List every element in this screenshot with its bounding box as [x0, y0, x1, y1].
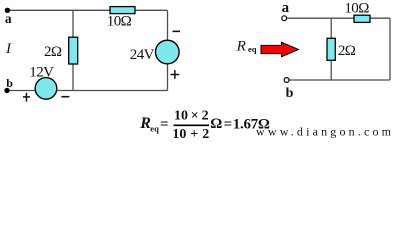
node a (right circuit open terminal)	[282, 16, 287, 21]
svg-text:12V: 12V	[29, 65, 54, 81]
arrow (red block arrow)	[261, 42, 299, 57]
wire: left circuit right branch	[167, 10, 169, 90]
wire: right circuit right side	[389, 18, 391, 80]
svg-text:2Ω: 2Ω	[338, 43, 356, 59]
svg-text:I: I	[5, 41, 12, 57]
svg-text:R: R	[236, 38, 247, 55]
svg-text:10Ω: 10Ω	[107, 14, 132, 30]
node b (left circuit terminal, solid dot)	[4, 88, 9, 93]
resistor R 2ohm (left circuit)	[69, 37, 78, 64]
svg-text:b: b	[6, 76, 13, 90]
plus sign of 12V source	[23, 93, 30, 102]
wire: right circuit bottom rail	[289, 79, 390, 81]
wire: right circuit top rail	[287, 17, 391, 19]
svg-text:10 + 2: 10 + 2	[172, 127, 209, 142]
svg-text:2Ω: 2Ω	[44, 44, 62, 60]
resistor R 10ohm (right circuit)	[354, 15, 370, 22]
wire: left circuit top rail	[7, 9, 168, 11]
wire: left circuit middle branch	[72, 10, 74, 90]
svg-text:Ω: Ω	[210, 116, 222, 132]
svg-text:b: b	[286, 86, 294, 101]
minus sign of 12V source	[61, 96, 69, 98]
voltage source V1 12V	[35, 78, 57, 100]
svg-text:eq: eq	[248, 44, 257, 54]
resistor R 2ohm (right circuit)	[327, 38, 335, 60]
svg-text:10 × 2: 10 × 2	[174, 108, 209, 123]
svg-text:eq: eq	[150, 123, 159, 133]
wire: right circuit middle branch	[330, 18, 332, 80]
svg-text:24V: 24V	[130, 47, 155, 63]
voltage source V2 24V	[156, 40, 180, 64]
svg-text:=: =	[224, 116, 233, 132]
wire: left circuit bottom rail	[7, 90, 168, 92]
node a (left circuit terminal, solid dot)	[5, 8, 10, 13]
minus sign of 24V source	[173, 30, 181, 32]
formula fraction bar	[174, 124, 210, 126]
svg-text:10Ω: 10Ω	[344, 0, 369, 16]
svg-text:a: a	[5, 11, 12, 26]
node b (right circuit open terminal)	[284, 78, 289, 83]
resistor R 10ohm (left circuit)	[110, 7, 135, 14]
svg-text:a: a	[282, 0, 290, 16]
plus sign of 24V source	[171, 70, 180, 79]
svg-text:=: =	[160, 116, 169, 132]
